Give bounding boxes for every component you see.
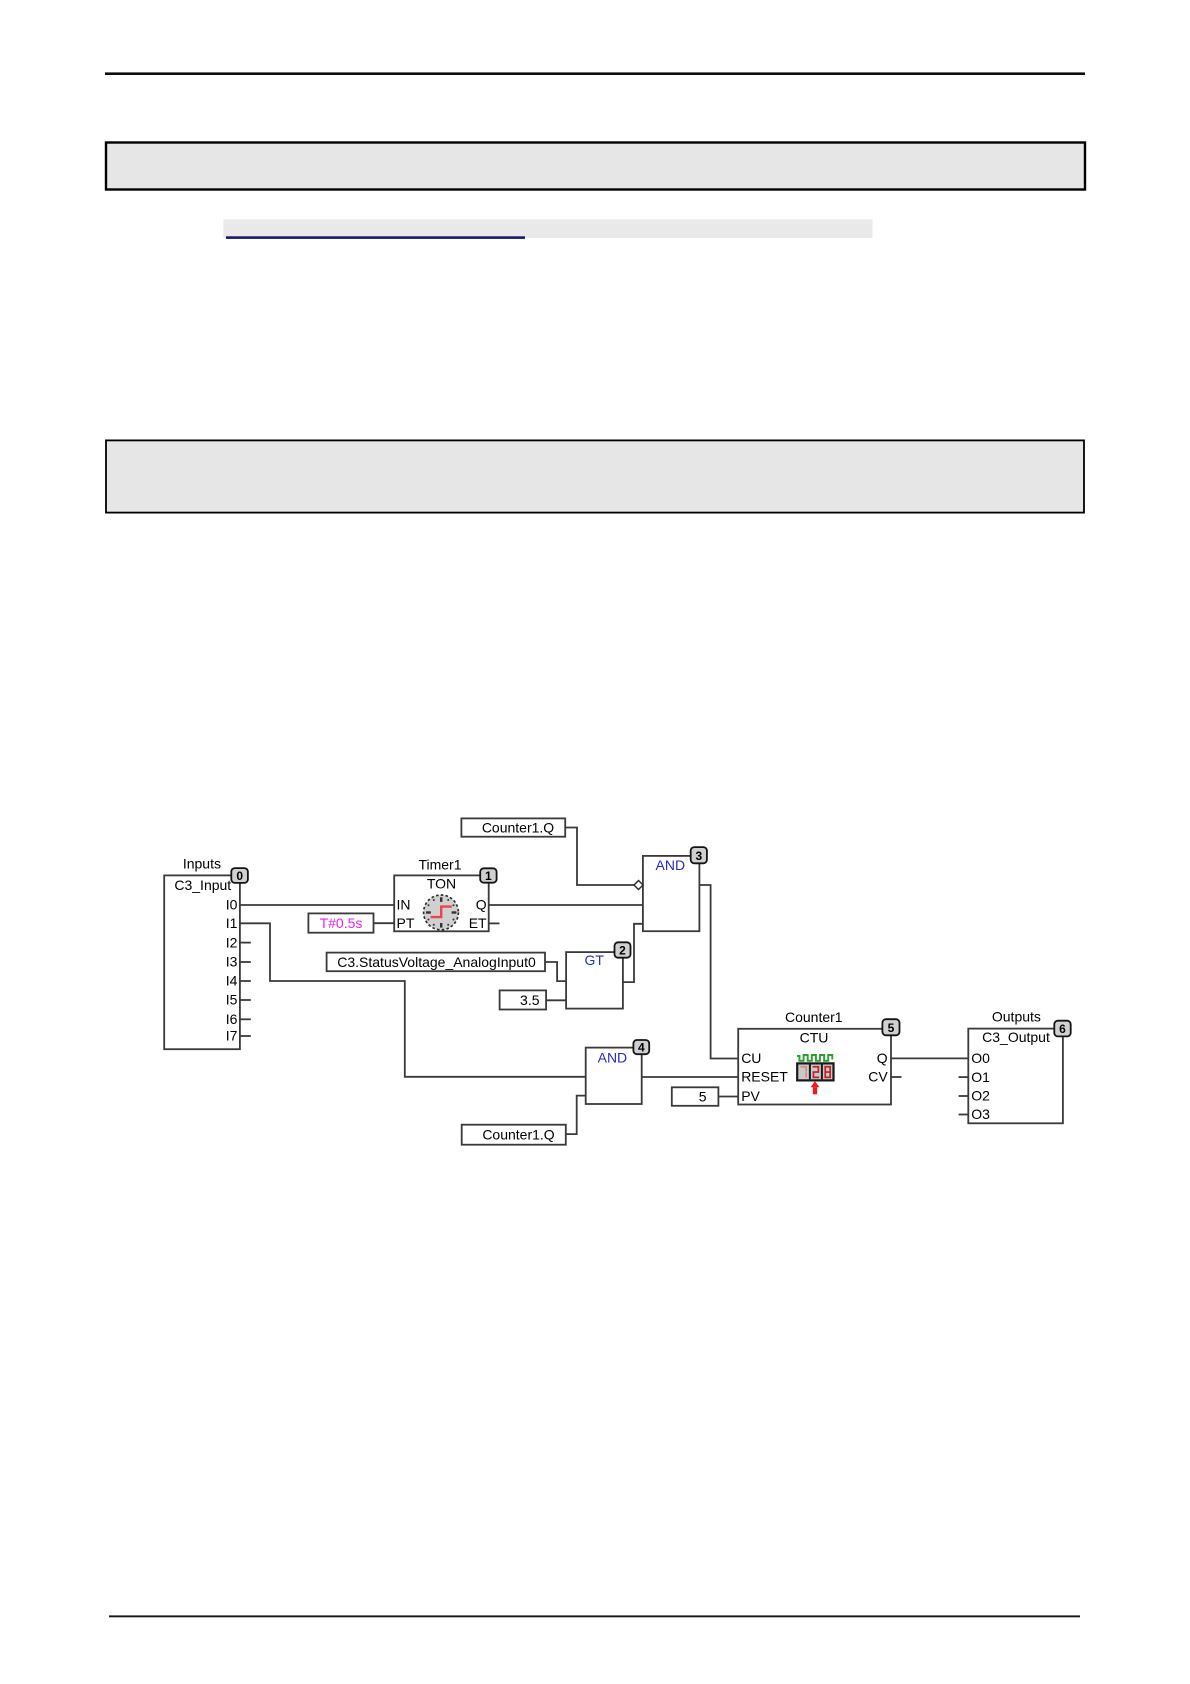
- svg-text:I2: I2: [226, 934, 238, 950]
- variable box C3.StatusVoltage_AnalogInput0: [327, 953, 545, 972]
- tick input I6: [240, 1018, 251, 1020]
- svg-text:Outputs: Outputs: [992, 1008, 1041, 1024]
- bottom rule: [109, 1615, 1080, 1617]
- digit 8 (bright): [824, 1066, 831, 1078]
- tick output O1: [959, 1076, 969, 1078]
- badge 3 on AND3: [691, 847, 707, 863]
- counter block Counter1 CTU: [738, 1009, 891, 1105]
- wire GT output to AND3 input 3: [623, 924, 643, 982]
- svg-text:I0: I0: [226, 897, 238, 913]
- top rule: [105, 72, 1085, 75]
- svg-text:O3: O3: [971, 1106, 990, 1122]
- comparator GT: [566, 952, 623, 1009]
- clock icon inside TON: [424, 895, 459, 930]
- wire AND4 output to CTU.RESET: [642, 1076, 739, 1078]
- wire TON.Q to AND3 input 2: [489, 904, 643, 906]
- wire AND3 output to CTU.CU: [699, 885, 738, 1059]
- svg-text:6: 6: [1059, 1022, 1066, 1036]
- wire Counter1.Q to AND3 negated input: [565, 828, 634, 886]
- variable box Counter1.Q bottom: [462, 1125, 566, 1145]
- badge 0 on C3_Input: [231, 868, 248, 883]
- digit 2 (bright): [813, 1066, 820, 1078]
- wire I1 to AND4 input 1: [240, 923, 586, 1077]
- tick output O2: [959, 1095, 969, 1097]
- svg-text:Counter1: Counter1: [785, 1009, 843, 1025]
- grey banner 2: [106, 440, 1084, 512]
- tick input I4: [240, 980, 251, 982]
- wire 3.5 to GT input 2: [546, 999, 566, 1001]
- counter icon: green pulse wave: [797, 1055, 832, 1061]
- svg-text:AND: AND: [598, 1049, 628, 1065]
- svg-text:PV: PV: [741, 1088, 760, 1104]
- AND gate 3: [643, 856, 700, 931]
- timer block Timer1 TON: [394, 856, 489, 931]
- tick output O3: [959, 1114, 969, 1116]
- badge 6 on C3_Output: [1054, 1021, 1070, 1037]
- tick input I2: [240, 942, 251, 944]
- input block C3_Input: [164, 856, 240, 1050]
- svg-text:I6: I6: [226, 1011, 238, 1027]
- hyperlink highlight strip: [223, 219, 872, 238]
- svg-text:4: 4: [638, 1041, 645, 1055]
- badge 5 on Counter1: [882, 1019, 899, 1035]
- svg-text:O0: O0: [971, 1050, 990, 1066]
- tick TON.ET: [489, 922, 500, 924]
- tick input I3: [240, 961, 251, 963]
- svg-text:CTU: CTU: [800, 1030, 829, 1046]
- AND gate 4: [586, 1048, 642, 1104]
- svg-text:Inputs: Inputs: [183, 856, 221, 872]
- svg-text:2: 2: [619, 944, 626, 958]
- constant box T#0.5s: [308, 913, 373, 932]
- svg-text:Q: Q: [476, 897, 487, 913]
- svg-text:Counter1.Q: Counter1.Q: [482, 1127, 554, 1143]
- svg-text:C3_Output: C3_Output: [982, 1029, 1050, 1045]
- negation diamond on AND3 input 1: [634, 880, 643, 889]
- svg-text:3.5: 3.5: [520, 992, 540, 1008]
- wire StatusVoltage to GT input 1: [545, 962, 566, 981]
- svg-text:TON: TON: [427, 876, 456, 892]
- svg-text:AND: AND: [656, 857, 686, 873]
- svg-text:RESET: RESET: [741, 1069, 788, 1085]
- wire CTU.Q to Outputs O0: [891, 1057, 968, 1059]
- svg-text:5: 5: [699, 1088, 707, 1104]
- wire I0 to TON.IN: [240, 904, 394, 906]
- svg-text:I4: I4: [226, 973, 238, 989]
- svg-text:O2: O2: [971, 1088, 990, 1104]
- svg-text:I3: I3: [226, 954, 238, 970]
- svg-text:CU: CU: [741, 1050, 761, 1066]
- badge 2 on GT: [615, 942, 631, 957]
- svg-text:3: 3: [695, 849, 702, 863]
- counter icon: 7-segment display 728: [797, 1063, 833, 1080]
- svg-text:C3.StatusVoltage_AnalogInput0: C3.StatusVoltage_AnalogInput0: [337, 954, 536, 970]
- svg-text:Counter1.Q: Counter1.Q: [482, 819, 554, 835]
- svg-text:T#0.5s: T#0.5s: [320, 915, 363, 931]
- wire Counter1.Q bottom to AND4 input 2: [566, 1096, 586, 1135]
- tick input I5: [240, 999, 251, 1001]
- svg-text:0: 0: [236, 869, 243, 883]
- svg-text:I7: I7: [226, 1028, 238, 1044]
- svg-text:GT: GT: [584, 952, 604, 968]
- wire T#0.5s to TON.PT: [374, 922, 395, 924]
- tick input I7: [240, 1035, 251, 1037]
- svg-text:ET: ET: [469, 915, 487, 931]
- svg-text:Q: Q: [877, 1050, 888, 1066]
- svg-text:IN: IN: [397, 897, 411, 913]
- digit 7 (dim): [800, 1066, 807, 1078]
- wire const 5 to CTU.PV: [718, 1096, 738, 1098]
- svg-text:1: 1: [485, 869, 492, 883]
- badge 1 on Timer1: [480, 868, 496, 883]
- constant box 3.5: [500, 990, 546, 1009]
- badge 4 on AND4: [633, 1040, 649, 1055]
- svg-text:5: 5: [888, 1021, 895, 1035]
- svg-text:Timer1: Timer1: [418, 856, 461, 872]
- svg-text:CV: CV: [868, 1069, 888, 1085]
- svg-text:O1: O1: [971, 1069, 990, 1085]
- svg-text:PT: PT: [397, 915, 415, 931]
- svg-text:I1: I1: [226, 915, 238, 931]
- header grey banner 1: [106, 143, 1085, 190]
- svg-text:C3_Input: C3_Input: [174, 877, 231, 893]
- counter icon: red up arrow: [811, 1081, 820, 1094]
- hyperlink underline: [226, 236, 525, 239]
- output block C3_Output: [968, 1008, 1063, 1123]
- constant box 5: [672, 1087, 719, 1106]
- variable box Counter1.Q top: [461, 818, 565, 836]
- svg-text:I5: I5: [226, 992, 238, 1008]
- tick CTU.CV: [891, 1076, 902, 1078]
